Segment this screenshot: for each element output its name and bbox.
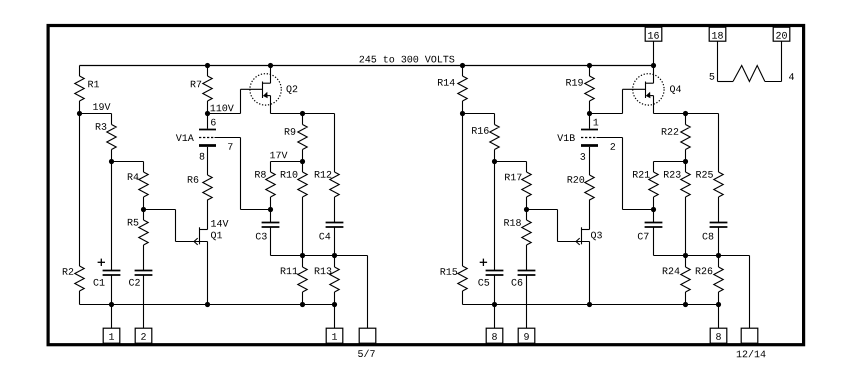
wire terminal 16 to bus (653, 41, 655, 65)
resistor R18 (526, 210, 528, 221)
resistor R21 (649, 172, 658, 197)
wire R12 column (334, 114, 336, 173)
resistor R25 (714, 172, 723, 197)
junction rail R24 (683, 253, 688, 258)
wire mid rail right (654, 255, 750, 257)
junction C1 bus (109, 302, 114, 307)
node 17V (300, 159, 305, 164)
wire R25 column (718, 114, 720, 173)
node R3 bottom (109, 159, 114, 164)
tube V1B pin 3 label (580, 153, 585, 160)
node pin2-R21-C7 (651, 207, 656, 212)
capacitor C6 (518, 270, 536, 272)
wire R26 to terminal (718, 305, 720, 329)
wire Q3 emitter to bus (589, 242, 591, 305)
resistor R9 (302, 114, 304, 125)
tube V1B plate lead (589, 114, 591, 129)
junction R22 top (683, 111, 688, 116)
tube V1A grid lead pin 7 (215, 137, 241, 139)
resistor R1 (79, 66, 81, 77)
junction R26 bus (716, 302, 721, 307)
tube V1B label (557, 134, 563, 141)
transistor Q4 (633, 74, 664, 105)
wire node to R4 (112, 161, 144, 163)
junction Q2 collector top (268, 63, 273, 68)
transistor Q3 (581, 227, 583, 244)
junction Q4 collector top (651, 63, 656, 68)
wire bottom bus right (463, 304, 719, 306)
resistor R24 (685, 256, 687, 268)
tube V1B cathode lead (589, 147, 591, 175)
wire C4 bottom (334, 227, 336, 255)
resistor R4 (139, 172, 148, 197)
junction R11 bus (300, 302, 305, 307)
wire mid rail left (271, 255, 368, 257)
transistor Q1 (199, 227, 201, 244)
resistor R16 (490, 125, 499, 150)
node pin7-R8-C3 (268, 207, 273, 212)
resistor R11 (302, 256, 304, 268)
wire node to Q4 base (590, 113, 623, 115)
resistor R14 (462, 66, 464, 77)
capacitor C7 (653, 210, 655, 223)
wire R4 node to Q1 base (144, 209, 176, 211)
wire bottom bus left (80, 304, 335, 306)
resistor R3 (107, 125, 116, 150)
resistor heater 5-4 (733, 66, 765, 82)
wire R16 node to C5 (494, 162, 496, 271)
resistor R22 (685, 114, 687, 125)
resistor R6 (203, 175, 212, 200)
wire R17 node to Q3 base (527, 209, 558, 211)
label 245 to 300 VOLTS (360, 56, 365, 63)
tube V1A plate (199, 129, 216, 131)
junction R9 top (300, 111, 305, 116)
wire C3 bottom (270, 227, 272, 255)
tube V1A pin 6 label (211, 119, 216, 126)
tube V1B cathode (581, 144, 598, 147)
wire R3 node to C1 (111, 162, 113, 271)
capacitor C2 (135, 270, 153, 272)
terminal 9 (518, 328, 535, 343)
terminal 8b (710, 328, 727, 343)
tube V1A label (176, 134, 182, 141)
resistor R19 (589, 66, 591, 77)
wire terminal 20 down (781, 41, 783, 81)
wire 19V node to R3 (80, 113, 112, 115)
resistor R12 (330, 172, 339, 197)
capacitor C1 (103, 270, 121, 272)
transistor Q2 (250, 74, 281, 105)
resistor R26 (718, 256, 720, 268)
resistor R13 (334, 256, 336, 268)
terminal 2 (135, 328, 152, 343)
wire 17V node to R8 (271, 161, 303, 163)
junction R14 top (460, 63, 465, 68)
wire left column down (79, 114, 81, 267)
resistor R7 (207, 66, 209, 77)
resistor R15 (458, 266, 467, 291)
resistor R23 (685, 162, 687, 173)
node R19 bottom (587, 111, 592, 116)
node R17-R18 (524, 207, 529, 212)
wire C6 to terminal 9 (526, 275, 528, 328)
junction Q3 bus (587, 302, 592, 307)
wire R13 to terminal (334, 305, 336, 329)
wire terminal 18 down (717, 41, 719, 81)
wire Q1 emitter to bus (207, 242, 209, 305)
junction R7 top (205, 63, 210, 68)
wire node to R17 (495, 161, 527, 163)
junction R24 bus (683, 302, 688, 307)
tube V1A cathode lead (207, 147, 209, 175)
wire Q4 emitter rail (654, 113, 719, 115)
resistor R17 (522, 172, 531, 197)
junction C5 bus (492, 302, 497, 307)
wire Q2 emitter rail (271, 113, 335, 115)
wire C8 bottom (718, 227, 720, 255)
capacitor C1 plus sign (98, 261, 105, 263)
tube V1A cathode (199, 144, 216, 147)
resistor R20 (585, 175, 594, 200)
wire C1 to terminal 1 (111, 275, 113, 328)
capacitor C5 (486, 270, 504, 272)
junction rail R26 (716, 253, 721, 258)
resistor R5 (143, 210, 145, 221)
border frame (48, 26, 804, 345)
node R4-R5 (141, 207, 146, 212)
wire C5 to terminal 8 (494, 275, 496, 328)
node 110V (205, 111, 210, 116)
node R16 bottom (492, 159, 497, 164)
tube V1B plate (581, 129, 598, 131)
terminal 1 (103, 328, 120, 343)
resistor R2 (75, 266, 84, 291)
resistor R10 (302, 162, 304, 173)
node R14 bottom (460, 111, 465, 116)
terminal 18 (709, 27, 726, 41)
junction R13 bus (332, 302, 337, 307)
wire C7 bottom (653, 227, 655, 255)
terminal 12/14 (741, 328, 758, 343)
terminal 20 (773, 27, 790, 41)
wire R14 column down (462, 114, 464, 267)
resistor R8 (266, 172, 275, 197)
tube V1B grid lead pin 2 (597, 137, 623, 139)
junction R19 top (587, 63, 592, 68)
wire node to R21 (654, 161, 686, 163)
capacitor C3 (270, 210, 272, 223)
wire R14 node to R16 (463, 113, 495, 115)
tube V1B pin 1 label (594, 119, 599, 126)
capacitor C5 plus sign (480, 261, 487, 263)
label 14V (211, 220, 216, 227)
wire C2 to terminal 2 (143, 275, 145, 328)
terminal 8 (486, 328, 503, 343)
tube V1A plate lead (207, 114, 209, 129)
junction Q1 bus (205, 302, 210, 307)
node R22 bottom (683, 159, 688, 164)
tube V1B grid (581, 137, 596, 139)
junction rail R11 (300, 253, 305, 258)
terminal 5/7 (359, 328, 376, 343)
capacitor C8 (710, 222, 728, 224)
tube V1A pin 8 label (200, 153, 205, 160)
wire 110V node to Q2 base (208, 113, 241, 115)
terminal 16 (645, 27, 662, 41)
terminal 1b (326, 328, 343, 343)
node 19V (77, 111, 82, 116)
capacitor C4 (326, 222, 344, 224)
wire top B+ bus 245-300V (80, 65, 654, 67)
tube V1A grid (199, 137, 214, 139)
junction rail R13 (332, 253, 337, 258)
